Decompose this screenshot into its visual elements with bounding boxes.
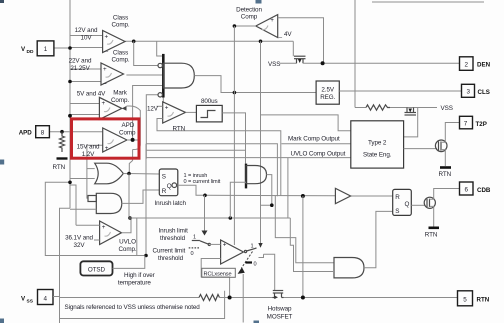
wire: UVLO output rail bbox=[129, 217, 290, 219]
svg-text:threshold: threshold bbox=[158, 255, 184, 262]
wire: class comp2 lower input bbox=[70, 81, 101, 83]
svg-text:RCLxsense: RCLxsense bbox=[204, 271, 232, 277]
svg-text:RTN: RTN bbox=[477, 297, 490, 304]
svg-text:T2P: T2P bbox=[476, 121, 487, 128]
transistor Q2 CLS MOSFET bbox=[390, 108, 437, 137]
node: junction at gate select bbox=[270, 203, 274, 207]
wire: mid AND lower input from rail bbox=[230, 182, 246, 218]
bubble inverted input a bbox=[158, 63, 162, 67]
wire: mark comp upper input bbox=[70, 103, 99, 105]
svg-text:1: 1 bbox=[193, 234, 196, 240]
node: branch to inrush switch bbox=[203, 194, 207, 198]
svg-text:21.25V: 21.25V bbox=[70, 65, 90, 72]
svg-text:5: 5 bbox=[463, 296, 467, 303]
wire: Mark Comp Output into state engine bbox=[282, 143, 351, 145]
node: branch to class bus bbox=[259, 40, 263, 44]
timer box 800us bbox=[196, 105, 222, 122]
wire: sense stub to bottom edge bbox=[242, 274, 244, 323]
svg-text:32V: 32V bbox=[74, 242, 86, 249]
comparator U5 12V bbox=[163, 102, 186, 123]
selection handle bottom-middle bbox=[254, 321, 260, 323]
svg-text:Q: Q bbox=[167, 183, 172, 190]
svg-text:15V and: 15V and bbox=[77, 143, 100, 150]
logic gate G1 big AND with bar bbox=[158, 54, 194, 98]
svg-text:Hotswap: Hotswap bbox=[268, 306, 292, 313]
selection handle top-middle bbox=[256, 0, 262, 4]
svg-text:RTN: RTN bbox=[173, 125, 186, 132]
svg-text:8: 8 bbox=[41, 130, 45, 137]
transistor Q4 CDB MOSFET bbox=[424, 189, 459, 227]
wire: class comp2 output to AND input bbox=[126, 74, 163, 76]
node: rail junction at x230 bbox=[229, 216, 233, 220]
resistor R-sense on rail bbox=[199, 295, 220, 301]
svg-text:+: + bbox=[102, 224, 106, 231]
svg-text:_: _ bbox=[102, 78, 107, 85]
label: RCL sense boxed bbox=[202, 268, 236, 277]
svg-text:SS: SS bbox=[27, 299, 34, 305]
pin 2 DEN bbox=[460, 57, 474, 71]
svg-text:5V and 4V: 5V and 4V bbox=[77, 91, 106, 98]
svg-text:Comp: Comp bbox=[119, 129, 136, 136]
svg-text:7: 7 bbox=[464, 120, 468, 127]
svg-text:Q: Q bbox=[405, 201, 410, 208]
comparator U6 Detection Comp (points left) bbox=[256, 15, 278, 38]
svg-text:RTN: RTN bbox=[439, 171, 452, 178]
svg-text:2.5V: 2.5V bbox=[321, 87, 334, 94]
node: junction with detection bus bbox=[233, 91, 237, 95]
svg-text:12V: 12V bbox=[147, 105, 159, 112]
wire: amp minus input loop RCL sense bbox=[201, 259, 229, 298]
svg-text:Class: Class bbox=[113, 14, 128, 21]
svg-text:36.1V and: 36.1V and bbox=[65, 234, 93, 241]
wire: 800us output down to mid AND gate bbox=[222, 113, 245, 164]
wire: amp plus input from switch bbox=[210, 243, 221, 245]
wire: latch Q output to net bbox=[178, 185, 205, 195]
wire: latch net branch stepping down to CDB AND top input bbox=[275, 196, 334, 263]
node: rail junction at sense bbox=[228, 296, 232, 300]
wire: AND bar bottom stub to 12V comp bbox=[162, 98, 164, 104]
wire: detection bus vertical bbox=[233, 26, 235, 245]
switch SW1 inrush/current-limit bbox=[189, 234, 211, 256]
wire: rail to bottom line link bbox=[136, 218, 138, 256]
wire: class comp2 upper input bbox=[70, 68, 101, 70]
node: rail junction at CDB bus bbox=[301, 296, 305, 300]
wire: mid horizontal from latch area to drop x277 bbox=[146, 144, 277, 197]
resistor R-CLS horizontal zigzag bbox=[366, 105, 390, 110]
wire: branch down from class1 node to AND inverted input bbox=[134, 41, 158, 65]
wire: branch to OR input bbox=[87, 168, 95, 170]
wire: mark comp output arrow stub bbox=[122, 106, 127, 111]
node: DEN junction bbox=[321, 61, 325, 65]
svg-text:temperature: temperature bbox=[118, 280, 151, 287]
opamp U10 current limit amp bbox=[221, 240, 244, 264]
svg-text:1.2V: 1.2V bbox=[82, 151, 95, 158]
logic gate G3 AND (left) bbox=[88, 193, 122, 213]
svg-text:+: + bbox=[223, 241, 227, 248]
svg-text:Class: Class bbox=[113, 49, 128, 56]
svg-text:4V: 4V bbox=[284, 31, 292, 38]
wire: AND left output to latch R bbox=[122, 190, 160, 203]
svg-text:S: S bbox=[395, 208, 399, 215]
svg-text:12V and: 12V and bbox=[75, 27, 98, 34]
svg-text:3: 3 bbox=[466, 89, 470, 96]
svg-text:DEN: DEN bbox=[477, 62, 491, 69]
svg-text:OTSD: OTSD bbox=[88, 267, 106, 274]
wire: UVLO inputs bbox=[76, 224, 100, 226]
svg-text:+: + bbox=[105, 33, 109, 40]
svg-text:S: S bbox=[162, 174, 166, 181]
wire: detection comp plus input loop to DEN bbox=[278, 18, 324, 64]
pin 5 RTN bbox=[458, 291, 473, 306]
wire: APD comp reference drop out of red box bbox=[87, 145, 103, 198]
svg-text:0: 0 bbox=[254, 261, 257, 267]
wire: UVLO rail end stepping down bbox=[290, 218, 333, 272]
svg-text:Type 2: Type 2 bbox=[368, 140, 387, 147]
svg-text:Inrush limit: Inrush limit bbox=[159, 227, 189, 234]
wire: class comp1 output top rail bbox=[125, 40, 293, 42]
wire: latch output net to buffer bbox=[205, 194, 335, 197]
ground RTN under T2P MOSFET bbox=[440, 166, 451, 169]
highlight red box around APD comparator bbox=[72, 119, 140, 158]
wire: mark comp output bypass bracket around red box bbox=[127, 106, 141, 150]
svg-text:DD: DD bbox=[27, 49, 34, 55]
svg-text:_: _ bbox=[104, 45, 109, 52]
node: bus junction at class2 bbox=[68, 80, 72, 84]
wire: UVLO output riser from rail bbox=[287, 158, 289, 218]
svg-text:6: 6 bbox=[464, 186, 468, 193]
wire: 12V comp feedback loop to RTN rail bbox=[157, 119, 281, 197]
svg-text:Detection: Detection bbox=[236, 6, 262, 13]
pin 1 VDD bbox=[37, 41, 54, 56]
svg-text:VSS: VSS bbox=[268, 61, 280, 68]
transistor Q3 T2P MOSFET bbox=[435, 123, 459, 167]
wire: VDD vertical bus bbox=[69, 0, 71, 208]
wire: bus to VSS pin drop bbox=[60, 208, 71, 323]
svg-text:2: 2 bbox=[464, 61, 468, 68]
wire: vertical link x146 bbox=[145, 144, 147, 256]
wire: bus top corner into class comp1 upper input bbox=[70, 35, 103, 37]
svg-text:UVLO Comp Output: UVLO Comp Output bbox=[291, 150, 346, 157]
svg-text:Comp: Comp bbox=[241, 14, 258, 21]
logic gate G2 OR bbox=[95, 163, 124, 184]
step symbol inside bbox=[201, 111, 216, 118]
svg-text:800us: 800us bbox=[201, 98, 218, 105]
svg-text:CDB: CDB bbox=[477, 187, 491, 194]
wire: bottom VSS rail bbox=[60, 297, 200, 299]
pin 6 CDB bbox=[460, 182, 474, 195]
wire: OR output to latch S bbox=[123, 173, 159, 176]
wire: mid vertical bus from top rail bbox=[260, 41, 262, 243]
wire: detection bus branch into state engine bbox=[261, 115, 351, 131]
wire: AND inverted input feed from mid rail bbox=[146, 95, 158, 159]
ground RTN under APD resistor bbox=[57, 157, 68, 159]
wire: faint cropped line top right bbox=[372, 1, 484, 3]
wire: dashed control arrow to sense point bbox=[242, 252, 253, 269]
svg-text:Comp.: Comp. bbox=[111, 57, 129, 64]
wire: mid AND output down bbox=[261, 175, 272, 206]
comparator U8 UVLO Comp bbox=[100, 221, 122, 245]
wire: class comp1 lower input bbox=[70, 47, 103, 49]
svg-text:RTN: RTN bbox=[53, 164, 66, 171]
svg-text:REG.: REG. bbox=[320, 94, 335, 101]
selection handle bottom-left bbox=[0, 319, 4, 323]
svg-text:MOSFET: MOSFET bbox=[267, 314, 293, 321]
svg-text:Inrush latch: Inrush latch bbox=[155, 200, 187, 207]
svg-text:0: 0 bbox=[191, 251, 194, 257]
regulator box 2.5V REG bbox=[316, 81, 339, 104]
svg-text:APD: APD bbox=[19, 130, 33, 137]
svg-text:4: 4 bbox=[43, 295, 47, 302]
comparator U3 Mark Comp bbox=[99, 97, 121, 119]
wire: OTSD output rising to junction bbox=[113, 256, 145, 269]
AND input bar bbox=[162, 54, 165, 98]
node: bus junction at mark comp bbox=[68, 114, 72, 118]
wire: pin4 to vertical bbox=[53, 296, 60, 298]
wire: OR node down to UVLO rail bbox=[128, 174, 130, 219]
svg-text:1: 1 bbox=[251, 243, 254, 249]
svg-text:Comp.: Comp. bbox=[118, 246, 136, 253]
selection handle left-middle bbox=[0, 160, 4, 165]
box OTSD bbox=[80, 261, 112, 275]
transistor Q5 hotswap MOSFET inline bbox=[273, 291, 284, 300]
latch U12 CDB RS latch bbox=[393, 189, 412, 215]
wire: big AND output to 2.5V REG rail bbox=[194, 76, 316, 93]
svg-text:22V and: 22V and bbox=[69, 57, 92, 64]
wire: DEN line to pin 2 bbox=[303, 62, 460, 64]
wire: bus branch to UVLO area (left drop) bbox=[45, 182, 146, 255]
svg-text:+: + bbox=[103, 66, 107, 73]
svg-text:Comp.: Comp. bbox=[111, 22, 129, 29]
node: junction at bottom horizontal bbox=[144, 254, 148, 258]
svg-text:RTN: RTN bbox=[425, 232, 438, 239]
node: UVLO rail junction bbox=[128, 216, 132, 220]
transistor Q1 detection MOSFET bbox=[280, 56, 306, 63]
bubble inverted input b bbox=[158, 93, 162, 97]
wire: top rail corner down to detection MOSFET bbox=[292, 41, 294, 56]
wire: gate drive to hotswap MOSFET bbox=[264, 254, 275, 290]
svg-text:+: + bbox=[270, 17, 274, 24]
wire: long vertical bus from top edge (classification) bbox=[354, 0, 356, 108]
wire: AND left lower input bbox=[70, 208, 96, 210]
svg-text:State Eng.: State Eng. bbox=[363, 152, 392, 159]
svg-text:threshold: threshold bbox=[160, 235, 186, 242]
wire: VDD pin1 to bus bbox=[54, 47, 70, 49]
wire: CLS current sink rail bbox=[355, 107, 366, 109]
svg-text:High if over: High if over bbox=[124, 272, 155, 279]
wire: mid horizontal 2 to timer bus bbox=[146, 149, 246, 151]
wire: APD comp output bbox=[127, 139, 140, 141]
resistor R-APD vertical zigzag bbox=[60, 132, 65, 152]
pin 4 VSS bbox=[38, 290, 54, 305]
node: bus-pin1 junction bbox=[68, 46, 72, 50]
wire: CDB AND output to latch S bbox=[364, 211, 393, 267]
svg-text:Current limit: Current limit bbox=[153, 247, 186, 254]
switch SW2 gate drive select bbox=[244, 243, 263, 267]
svg-text:1: 1 bbox=[44, 46, 48, 53]
comparator U2 Class Comp (22V/21.25V) bbox=[101, 63, 124, 85]
svg-text:Mark: Mark bbox=[113, 90, 128, 97]
box U7 Type 2 State Engine bbox=[351, 121, 404, 168]
svg-text:10V: 10V bbox=[81, 35, 93, 42]
logic gate G4 mid AND bbox=[246, 164, 267, 189]
node: APD comp output junction bbox=[131, 138, 135, 142]
wire: state engine to T2P gate bbox=[404, 148, 437, 150]
wire: UVLO Comp Output into state engine bbox=[146, 157, 351, 159]
wire: buffer to CDB latch R bbox=[351, 195, 393, 197]
comparator U1 Class Comp (12V/10V) bbox=[103, 31, 125, 53]
svg-text:UVLO: UVLO bbox=[119, 239, 136, 246]
node: class comp1 output node bbox=[132, 40, 136, 44]
logic gate G5 CDB AND bbox=[334, 258, 364, 278]
wire: mark comp lower input bbox=[70, 114, 99, 116]
svg-text:_: _ bbox=[278, 31, 283, 38]
node: detection output junction bbox=[233, 24, 237, 28]
wire: bypass continues down to OR output node bbox=[129, 150, 132, 174]
ground RTN under CDB MOSFET bbox=[429, 227, 440, 230]
AND body bbox=[163, 63, 194, 88]
svg-text:Comp.: Comp. bbox=[111, 97, 129, 104]
wire: UVLO comp output up to rail bbox=[122, 218, 132, 233]
node: branch to CDB logic bbox=[301, 194, 305, 198]
svg-text:CLS: CLS bbox=[478, 89, 490, 96]
svg-text:Mark Comp Output: Mark Comp Output bbox=[288, 136, 340, 143]
wire: inner bottom return line bbox=[60, 291, 225, 319]
svg-text:APD: APD bbox=[122, 122, 135, 129]
svg-text:VSS: VSS bbox=[441, 105, 453, 112]
wire: 12V label tick bbox=[157, 105, 163, 107]
svg-text:+: + bbox=[102, 100, 106, 107]
svg-text:+: + bbox=[165, 105, 169, 112]
wire: REG output to CLS pin3 bbox=[339, 90, 462, 92]
wire: top rail branch down into AND bar top bbox=[157, 41, 163, 56]
wire: 12V comp output to 800us box bbox=[186, 111, 197, 113]
wire: latch Q to CDB MOSFET gate bbox=[411, 204, 425, 206]
comparator U4 APD Comp bbox=[103, 128, 127, 152]
pin 7 T2P bbox=[460, 116, 473, 129]
wire: OR1 lower input from bus bbox=[70, 178, 95, 180]
wire: CDB bus down to rail bbox=[302, 196, 304, 298]
svg-text:Signals referenced to VSS unle: Signals referenced to VSS unless otherwi… bbox=[65, 304, 201, 311]
svg-text:+: + bbox=[105, 145, 109, 152]
selection handle top-left bbox=[0, 0, 4, 3]
wire: detection comp output to bus bbox=[234, 25, 255, 27]
node: APD resistor junction bbox=[60, 130, 64, 134]
node: junction of drop wire on bus bbox=[68, 181, 72, 185]
buffer U11 bbox=[335, 188, 350, 203]
svg-text:0 = current limit: 0 = current limit bbox=[184, 179, 221, 185]
pin 3 CLS bbox=[462, 84, 475, 97]
pin 8 APD bbox=[36, 126, 50, 138]
wire: APD comp output node up to AND input bbox=[133, 86, 163, 140]
node: OR output junction bbox=[127, 172, 131, 176]
wire: inrush threshold switch drop bbox=[204, 195, 206, 234]
latch U9 inrush SR latch bbox=[159, 169, 178, 196]
svg-text:R: R bbox=[395, 194, 400, 201]
wire: APD pin to APD comparator input bbox=[49, 131, 102, 133]
wire: amp output to gate switch bbox=[244, 251, 246, 253]
